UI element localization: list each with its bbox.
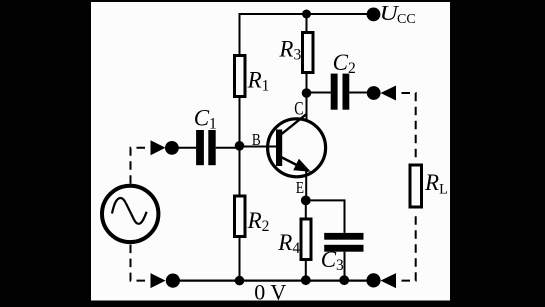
svg-text:0 V: 0 V: [254, 279, 286, 304]
node B junction dot: [235, 141, 245, 151]
terminal input bottom: arrow + dot: [151, 273, 180, 288]
wire C3 bottom plate to rail: [344, 252, 346, 281]
wire bottom ground rail: [173, 279, 374, 281]
resistor R2: [235, 196, 246, 237]
wire collector node to C2: [307, 92, 331, 94]
transistor Q1: [268, 114, 326, 177]
node E junction dot: [301, 196, 311, 206]
node junction on top rail above R3: [302, 10, 311, 19]
capacitor C3: [324, 233, 363, 252]
node collector / C2 junction: [302, 88, 312, 98]
wire top supply rail: [240, 13, 374, 15]
capacitor C1: [196, 130, 216, 165]
wire dashed from RL bottom to output bottom arrow: [396, 211, 416, 281]
wire R1 bottom through node B to R2: [239, 96, 241, 196]
terminal output top: dot + arrow: [367, 86, 396, 101]
wire base from node B to transistor: [240, 146, 277, 148]
wire input dot to C1 left plate: [172, 147, 196, 149]
wire dashed from source bottom to input bottom arrow: [131, 244, 151, 281]
capacitor C2: [331, 74, 350, 110]
resistor R1: [235, 56, 246, 97]
terminal input top: arrow + dot: [151, 140, 179, 155]
wire emitter vertical down to E node: [305, 171, 307, 200]
wire C1 right plate to node B: [216, 147, 240, 149]
wire dashed from source top to input arrow: [131, 148, 151, 185]
source sine generator: [102, 186, 158, 242]
wire R3 bottom to collector node: [306, 72, 308, 93]
svg-text:E: E: [296, 179, 304, 198]
wire E node to R4: [305, 200, 307, 219]
wire dashed from output top arrow to RL: [396, 93, 416, 160]
node junction R4 with bottom rail: [301, 275, 311, 285]
terminal output bottom: dot + arrow: [366, 273, 396, 288]
resistor RL: [410, 165, 422, 207]
node junction C3 with bottom rail: [339, 275, 349, 285]
svg-text:CC: CC: [397, 12, 416, 27]
wire from top rail down to R1: [239, 13, 241, 55]
wire R2 bottom to ground rail: [239, 236, 241, 281]
schematic background panel: [91, 2, 450, 301]
resistor R4: [301, 219, 311, 260]
terminal Ucc dot: [367, 7, 381, 21]
wire R4 bottom to rail: [305, 259, 307, 281]
wire collector vertical into transistor: [306, 93, 308, 121]
resistor R3: [303, 33, 314, 73]
wire E node horizontal to C3 branch then down: [306, 200, 345, 233]
wire C2 right plate to output dot: [349, 92, 373, 94]
wire from top rail down to R3: [306, 14, 308, 33]
svg-text:C: C: [294, 98, 303, 119]
node junction of R2 branch with bottom rail: [235, 276, 245, 286]
